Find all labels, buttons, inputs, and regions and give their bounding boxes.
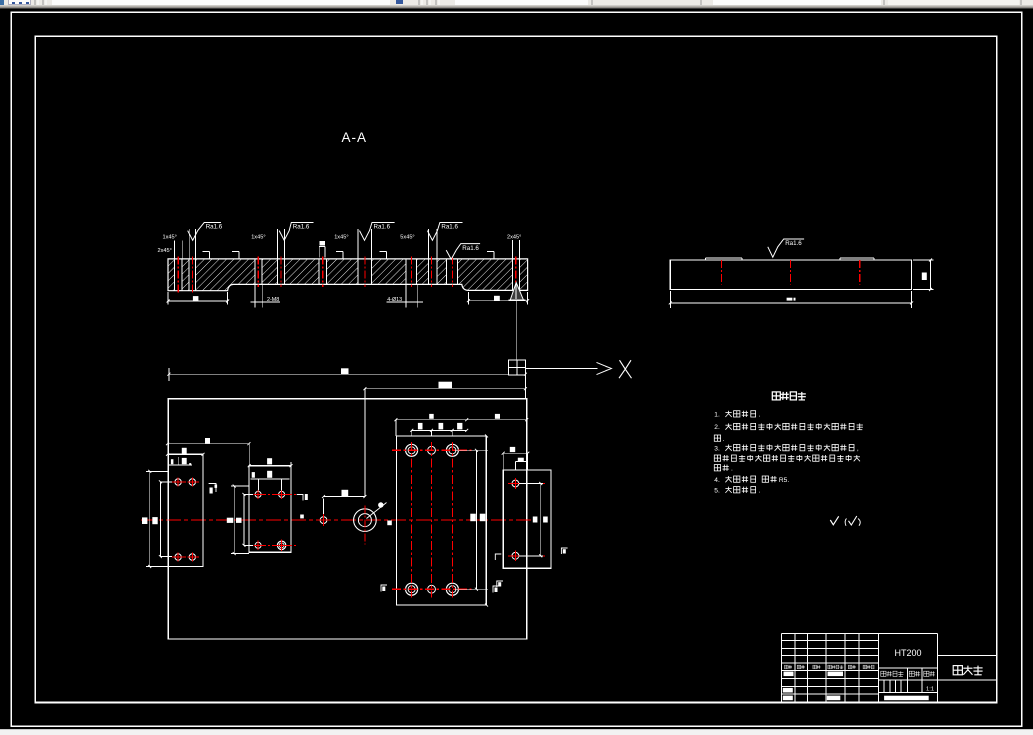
side view right dim xyxy=(913,259,933,261)
section bar outline with hatch xyxy=(168,259,528,291)
hole wall lines xyxy=(174,259,176,291)
centerline texts between blocks xyxy=(227,518,234,523)
svg-text:2x45°: 2x45° xyxy=(158,248,172,254)
small chamfer tick dims on bar top xyxy=(203,251,210,253)
sf symbol on side view xyxy=(768,239,804,257)
dims above left block xyxy=(168,443,249,445)
section holes (voids) xyxy=(175,260,183,290)
projection line down to plan xyxy=(515,301,517,360)
svg-text:1:1: 1:1 xyxy=(926,686,934,692)
svg-text:.: . xyxy=(723,436,725,443)
raised pads on top xyxy=(706,257,743,259)
svg-text:HT200: HT200 xyxy=(894,648,921,658)
second block left dims xyxy=(231,485,249,487)
right block circles top xyxy=(406,444,418,456)
far right corner marks xyxy=(495,554,501,560)
red hole centerlines (section) xyxy=(177,256,179,293)
letter X xyxy=(619,360,632,378)
tolerance frame marks xyxy=(209,484,216,493)
svg-text:Ra1.6: Ra1.6 xyxy=(785,240,802,247)
svg-text:1x45°: 1x45° xyxy=(334,235,348,241)
bottom corner marks right block xyxy=(381,585,387,592)
svg-text:5x45°: 5x45° xyxy=(400,235,414,241)
side view plate xyxy=(670,260,911,290)
svg-text:Ra1.6: Ra1.6 xyxy=(441,224,458,231)
svg-text:Ra1.6: Ra1.6 xyxy=(293,224,310,231)
svg-text:A-A: A-A xyxy=(342,130,368,145)
left block circles xyxy=(175,479,181,485)
right block right dims xyxy=(475,450,477,589)
main red horizontal centerline xyxy=(141,519,532,521)
second block circles xyxy=(255,491,261,497)
dims above right block xyxy=(396,419,527,421)
svg-text:Ra1.6: Ra1.6 xyxy=(206,224,223,231)
dim below right pedestal xyxy=(467,292,469,305)
quadrant box marker xyxy=(508,360,525,375)
dim small-to-bush xyxy=(324,496,365,498)
part name 夹具体 xyxy=(953,666,962,675)
right block red centerlines xyxy=(411,442,413,598)
svg-text:1x45°: 1x45° xyxy=(251,235,265,241)
title block grid xyxy=(782,633,997,702)
far right top dims xyxy=(502,453,504,470)
dim below left pedestal xyxy=(167,292,169,305)
tech requirements title xyxy=(772,392,780,400)
far right dims xyxy=(519,483,543,485)
X direction arrow xyxy=(525,368,597,370)
svg-text:2-M8: 2-M8 xyxy=(267,297,279,303)
center double circle (bush) xyxy=(354,509,377,532)
extension lines above bar xyxy=(174,241,176,259)
plan top dim 300 xyxy=(168,368,170,381)
left block left dims xyxy=(146,470,168,472)
left clamp block xyxy=(168,454,203,566)
svg-text:4.: 4. xyxy=(714,477,720,484)
svg-text:.: . xyxy=(731,465,733,472)
svg-text:.: . xyxy=(759,487,761,494)
svg-text:,: , xyxy=(857,445,859,452)
surface finish symbols over section xyxy=(188,223,221,241)
svg-text:1.: 1. xyxy=(714,412,720,419)
right big block xyxy=(397,436,487,605)
dims above/in second block xyxy=(267,458,272,464)
svg-text:1x45°: 1x45° xyxy=(163,235,177,241)
red lines in side view xyxy=(720,260,722,285)
mid hole dims below bar xyxy=(254,285,256,307)
plan: base plate outline xyxy=(168,399,527,639)
finish checkmarks xyxy=(830,516,838,525)
svg-text:2x45°: 2x45° xyxy=(507,235,521,241)
center small hole xyxy=(320,517,327,524)
leader with dot xyxy=(367,503,387,519)
locating pin cone (filled) xyxy=(510,283,523,301)
svg-text:3.: 3. xyxy=(714,445,720,452)
svg-text:R5.: R5. xyxy=(779,477,789,484)
title block small labels xyxy=(785,665,789,669)
svg-text:.: . xyxy=(759,412,761,419)
side view bottom dim xyxy=(669,291,671,308)
svg-text:4-Ø13: 4-Ø13 xyxy=(387,297,402,303)
second clamp block xyxy=(249,466,291,553)
svg-text:Ra1.6: Ra1.6 xyxy=(462,245,479,252)
far right block xyxy=(503,470,551,568)
far right circles xyxy=(512,480,519,487)
svg-text:2.: 2. xyxy=(714,424,720,431)
plan second dim 147 xyxy=(365,388,526,390)
svg-text:5.: 5. xyxy=(714,487,720,494)
svg-text:Ra1.6: Ra1.6 xyxy=(374,224,391,231)
M8 pocket mark xyxy=(318,246,320,257)
